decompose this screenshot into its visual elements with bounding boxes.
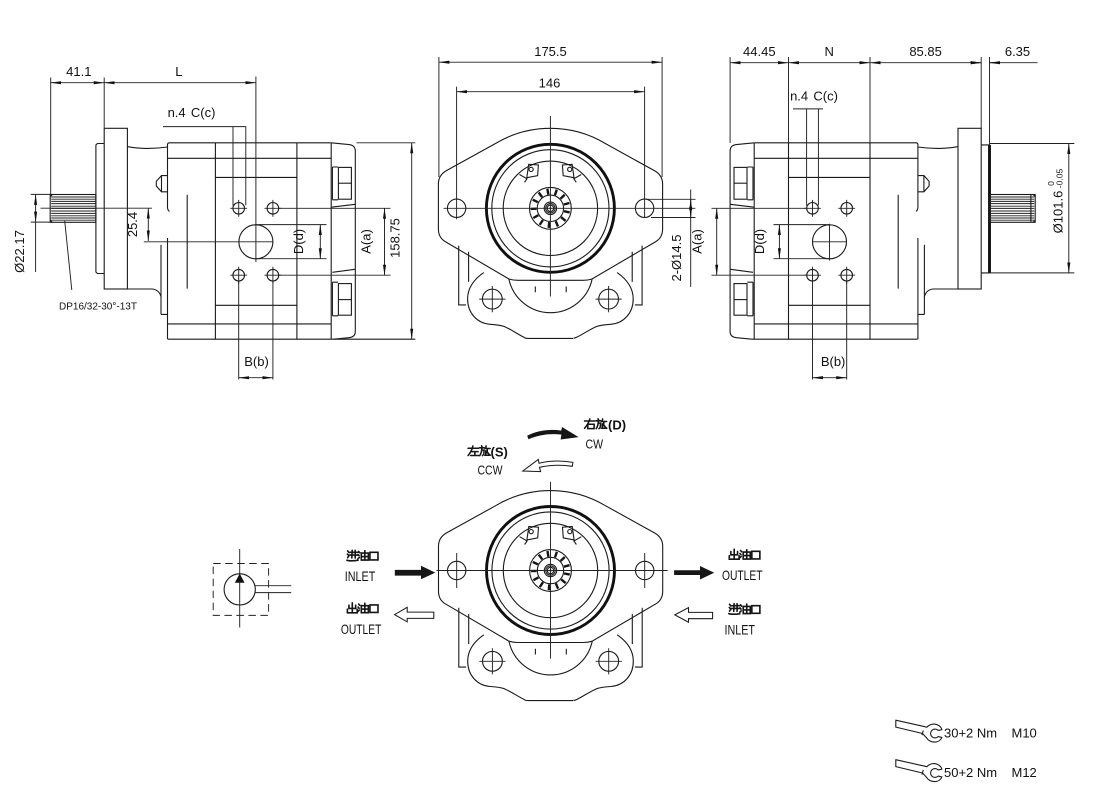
svg-text:D(d): D(d) xyxy=(291,229,306,254)
svg-text:(D): (D) xyxy=(608,418,626,433)
ear hole verticals (bottom view) xyxy=(457,553,645,588)
CW rotation arrow (solid) xyxy=(527,427,578,440)
pump body outline (right view) xyxy=(752,143,918,339)
bottom plug boss xyxy=(332,282,338,316)
TOP FRONT VIEW xyxy=(438,128,662,338)
svg-text:D(d): D(d) xyxy=(752,229,767,254)
svg-text:41.1: 41.1 xyxy=(66,64,91,79)
dimension 175.5 xyxy=(439,57,662,177)
svg-text:OUTLET: OUTLET xyxy=(722,567,763,583)
svg-text:INLET: INLET xyxy=(345,568,376,584)
svg-text:n.4 C(c): n.4 C(c) xyxy=(168,105,216,120)
RIGHT SIDE VIEW of gear pump xyxy=(730,128,1035,339)
rear cover outline xyxy=(331,143,355,339)
dimension dia 101.6 xyxy=(990,144,1075,273)
svg-text:158.75: 158.75 xyxy=(388,218,403,258)
bolt hole top-left xyxy=(233,203,245,215)
svg-text:50+2 Nm: 50+2 Nm xyxy=(944,765,997,780)
dimension A(a) (right view) xyxy=(712,208,807,275)
svg-text:(S): (S) xyxy=(491,445,508,460)
mounting flange plate (right view) xyxy=(958,128,981,289)
svg-text:A(a): A(a) xyxy=(690,229,705,254)
dimension A(a) left view xyxy=(279,208,391,275)
centre lines xyxy=(444,116,696,297)
svg-text:25.4: 25.4 xyxy=(125,212,140,237)
label outlet (left) xyxy=(347,603,357,613)
cover face curves xyxy=(331,204,355,272)
inlet arrow outline (right) xyxy=(675,608,713,623)
top plug boss (right view) xyxy=(747,167,753,200)
wrench 30 Nm xyxy=(896,720,942,742)
hydraulic pump schematic symbol xyxy=(213,564,268,616)
side port circle xyxy=(239,225,273,259)
dimension D(d) left view xyxy=(256,225,327,259)
side port boss (pointed, right view) xyxy=(918,176,930,192)
flange bottom corner fillet (right view) xyxy=(918,289,981,314)
splined shaft stub (right view) xyxy=(990,195,1036,223)
svg-text:M12: M12 xyxy=(1012,765,1037,780)
dimension D(d) (right view) xyxy=(774,225,830,259)
bottom plug boss (right view) xyxy=(747,282,753,316)
dimension 146 xyxy=(457,87,645,220)
centre lines (bottom view) xyxy=(437,482,668,659)
label DP16/32-30-13T with leader xyxy=(65,221,72,290)
svg-text:A(a): A(a) xyxy=(358,229,373,254)
outlet arrow outline (left) xyxy=(395,607,434,622)
mounting flange plate xyxy=(104,128,127,289)
svg-text:OUTLET: OUTLET xyxy=(341,621,382,637)
dimension B(b) left view xyxy=(239,282,273,380)
top plug boss xyxy=(332,167,338,200)
flange-to-body joint curve xyxy=(127,147,167,149)
svg-text:6.35: 6.35 xyxy=(1005,44,1030,59)
label outlet (right) xyxy=(729,549,739,559)
dimension 25.4 xyxy=(147,208,149,241)
svg-text:146: 146 xyxy=(539,75,561,90)
bolt hole top-right xyxy=(267,203,279,215)
side port boss (left pointed) xyxy=(156,176,168,192)
shaft centre line xyxy=(41,207,153,209)
svg-text:M10: M10 xyxy=(1012,726,1037,741)
pump body outline xyxy=(168,143,416,339)
svg-text:DP16/32-30°-13T: DP16/32-30°-13T xyxy=(59,302,137,313)
dimension 158.75 xyxy=(357,142,416,144)
wrench 50 Nm xyxy=(896,760,942,782)
side port circle (right view) xyxy=(813,225,847,259)
svg-text:-0.05: -0.05 xyxy=(1055,169,1065,189)
body-to-flange joint curve (right view) xyxy=(918,147,958,149)
dimension L xyxy=(104,82,256,84)
top dimension chain 44.45 / N / 85.85 / 6.35 xyxy=(730,57,989,145)
label CCW xyxy=(468,446,479,456)
rear cover outline (right view) xyxy=(730,143,754,339)
svg-text:2-Ø14.5: 2-Ø14.5 xyxy=(669,235,684,282)
dimension dia 22.17 xyxy=(31,194,51,222)
label inlet (right) xyxy=(729,604,740,615)
drive shaft with splines xyxy=(50,195,96,223)
label inlet (left) xyxy=(347,550,358,561)
body joint lines xyxy=(168,158,332,324)
svg-text:L: L xyxy=(175,64,182,79)
bolt hole bottom-right xyxy=(267,269,279,281)
dimension 2-dia14.5 xyxy=(646,199,696,217)
bolt hole bottom-left (right view) xyxy=(807,269,819,281)
outlet arrow solid (right) xyxy=(674,566,714,580)
svg-text:N: N xyxy=(825,44,834,59)
svg-text:B(b): B(b) xyxy=(821,354,846,369)
svg-text:B(b): B(b) xyxy=(244,354,269,369)
port centre vertical / L extension xyxy=(255,77,257,263)
section verticals xyxy=(215,143,297,339)
bolt hole bottom-right (right view) xyxy=(841,269,853,281)
svg-text:Ø101.6: Ø101.6 xyxy=(1051,191,1066,234)
mounting pilot xyxy=(96,144,104,274)
BOTTOM FRONT VIEW (rotation/porting diagram) xyxy=(439,491,663,701)
LEFT SIDE VIEW of gear pump xyxy=(41,77,416,340)
svg-text:n.4 C(c): n.4 C(c) xyxy=(790,89,838,104)
flange bottom corner fillet and step xyxy=(104,289,167,314)
pilot disc with heavy face line xyxy=(981,145,989,273)
bolt hole top-right (right view) xyxy=(841,203,853,215)
svg-text:Ø22.17: Ø22.17 xyxy=(12,230,27,273)
svg-text:44.45: 44.45 xyxy=(743,44,776,59)
svg-text:85.85: 85.85 xyxy=(909,44,942,59)
svg-text:INLET: INLET xyxy=(725,622,756,638)
inlet arrow solid (left) xyxy=(395,566,436,580)
dimension 41.1 xyxy=(51,78,104,195)
svg-text:CCW: CCW xyxy=(478,463,504,478)
svg-text:175.5: 175.5 xyxy=(534,44,567,59)
bolt hole top-left (right view) xyxy=(807,203,819,215)
svg-text:30+2 Nm: 30+2 Nm xyxy=(944,726,997,741)
bolt hole bottom-left xyxy=(233,269,245,281)
svg-text:CW: CW xyxy=(586,437,604,452)
dimension B(b) (right view) xyxy=(813,282,847,380)
CCW rotation arrow (outline) xyxy=(523,459,573,471)
